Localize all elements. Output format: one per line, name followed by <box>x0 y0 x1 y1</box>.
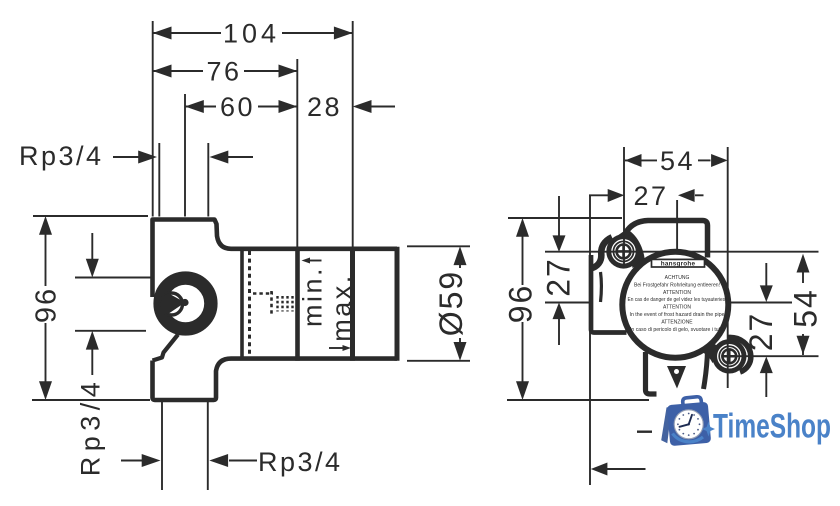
RIGHT VIEW <box>507 147 819 485</box>
svg-text:27: 27 <box>633 181 668 211</box>
extension line x624 <box>623 147 625 268</box>
centerline x590 <box>589 195 591 485</box>
extension line x152.7 <box>152 21 154 217</box>
Rp3/4 port dimension <box>75 277 152 279</box>
logo sparkle <box>702 422 715 437</box>
bottom cut dimension arrow <box>606 468 646 470</box>
extension line y356.2 <box>728 355 819 357</box>
logo swoosh <box>673 434 704 442</box>
dashed spindle thread block <box>278 296 293 312</box>
Rp3/4 bottom leader left <box>121 460 142 462</box>
drain spout <box>667 366 686 389</box>
extension line y251.7 <box>545 251 819 253</box>
dimension 27 vertical right <box>765 263 767 286</box>
svg-text:27: 27 <box>743 312 779 352</box>
dimension 96 right view <box>508 217 622 219</box>
logo clock hands <box>680 415 693 427</box>
svg-text:ATTENTION: ATTENTION <box>663 305 691 311</box>
logo bag stripe <box>661 406 672 443</box>
max arrow <box>329 347 343 349</box>
knob center dot <box>181 299 188 306</box>
flange boundary line <box>240 249 244 359</box>
TimeShop logo <box>661 397 831 446</box>
plate lower tab <box>646 352 657 394</box>
svg-text:60: 60 <box>220 92 255 122</box>
dimension 76 <box>153 70 298 72</box>
svg-text:Ø59: Ø59 <box>433 270 469 336</box>
Rp3/4 top leader right <box>227 156 253 158</box>
boss1 swoosh arc <box>591 237 613 268</box>
logo clock face <box>674 410 703 439</box>
valve body outline <box>153 220 398 401</box>
min arrow <box>309 260 322 262</box>
dimension 104 <box>153 32 353 34</box>
svg-text:En cas de danger de gel videz: En cas de danger de gel videz les tuyaut… <box>628 297 727 303</box>
main circle <box>622 252 728 358</box>
body notch lower-left <box>153 335 179 361</box>
svg-text:96: 96 <box>31 287 63 323</box>
screw boss bottom-right <box>712 339 746 373</box>
svg-text:ATTENZIONE: ATTENZIONE <box>661 319 693 325</box>
bottom socket line left <box>161 402 163 490</box>
dimension 27 vertical left <box>558 196 560 236</box>
min depth line <box>295 247 300 361</box>
svg-text:27: 27 <box>541 257 577 297</box>
svg-text:Rp3/4: Rp3/4 <box>258 447 343 477</box>
Rp3/4 top leader left <box>113 156 140 158</box>
screw boss top-left <box>606 234 640 268</box>
logo bag body <box>667 402 711 446</box>
dashed spindle stem <box>270 291 273 317</box>
boss web bottom-right to circle <box>697 344 722 363</box>
boss2 horn arc <box>728 337 751 372</box>
centerline tick <box>637 431 652 433</box>
svg-text:TimeShop: TimeShop <box>713 408 831 446</box>
svg-text:hansgrohe: hansgrohe <box>661 261 696 268</box>
svg-text:54: 54 <box>788 288 824 328</box>
bottom socket line right <box>207 402 209 490</box>
dashed spindle wall line <box>248 251 251 357</box>
max depth line <box>350 247 355 361</box>
plate right edge lower stub <box>704 350 708 389</box>
boss1 web to circle <box>616 229 646 268</box>
extension line x352.7 <box>352 21 354 247</box>
Rp3/4 bottom leader right <box>229 460 257 462</box>
svg-text:Rp3/4: Rp3/4 <box>76 377 106 477</box>
extension line x677.1 <box>676 200 678 249</box>
dimension 96 left <box>33 215 148 217</box>
dimension 60 <box>185 106 297 108</box>
plate left edge <box>591 255 627 333</box>
dashed spindle axis <box>253 292 273 295</box>
svg-text:Rp3/4: Rp3/4 <box>19 141 104 171</box>
plate top edge with dive into boss <box>622 221 708 258</box>
extension line x727.7 <box>727 147 729 388</box>
svg-text:96: 96 <box>503 284 539 324</box>
extension line y302.5 left <box>545 302 591 304</box>
dimension 54 vertical right <box>802 271 804 283</box>
svg-text:max.: max. <box>327 273 357 342</box>
knob handle circle <box>161 293 183 315</box>
warning text block <box>628 275 727 333</box>
dimension 27 horizontal <box>589 194 608 196</box>
svg-text:ATTENTION: ATTENTION <box>663 290 691 296</box>
body right end line <box>395 247 400 361</box>
hansgrohe label box <box>652 259 705 267</box>
top socket line left <box>158 143 160 217</box>
svg-text:In caso di pericolo di gelo, s: In caso di pericolo di gelo, svuotare i … <box>630 327 724 333</box>
knob wedge <box>161 293 185 314</box>
svg-text:76: 76 <box>206 57 241 87</box>
extension line x185 <box>184 94 186 217</box>
dimension 54 horizontal <box>625 159 711 161</box>
svg-text:min.: min. <box>298 266 328 327</box>
svg-text:104: 104 <box>223 19 280 49</box>
svg-text:In the event of frost hazard d: In the event of frost hazard drain the p… <box>630 312 725 318</box>
diameter 59 dimension <box>407 245 470 247</box>
extension line x297.3 <box>296 59 298 247</box>
svg-text:28: 28 <box>307 92 342 122</box>
dimension 28 outside arrow <box>371 106 395 108</box>
boss1 inner tail <box>599 272 603 302</box>
extension line y302.5 right <box>731 302 793 304</box>
top socket line right <box>207 143 209 217</box>
svg-text:Bei Frostgefahr Rohrleitung en: Bei Frostgefahr Rohrleitung entleeren! <box>634 282 720 288</box>
svg-text:54: 54 <box>660 146 695 176</box>
logo clock ticks <box>677 413 700 436</box>
logo bag handle <box>683 397 702 409</box>
svg-text:ACHTUNG: ACHTUNG <box>665 275 690 281</box>
knob outer ring <box>160 278 211 329</box>
